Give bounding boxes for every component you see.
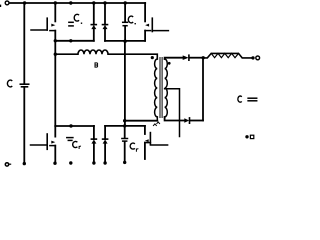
transistor Q2 gate bar <box>151 18 153 31</box>
transistor Q2 source wire <box>144 31 146 41</box>
rectifier D6 wire <box>165 117 185 121</box>
transistor Q4 source bar <box>145 142 151 144</box>
diode D2 cathode bar <box>103 24 108 26</box>
output terminal plus <box>256 56 260 60</box>
diode D1 clamp upper lead <box>93 3 95 25</box>
transistor Q3 source bar <box>50 145 55 147</box>
transistor Q4 drain wire <box>144 126 146 134</box>
label C input <box>7 80 12 87</box>
rectifier D6 output wire <box>190 120 203 122</box>
diode D2 clamp upper lead <box>104 3 106 25</box>
transistor Q3 arrow <box>51 141 55 144</box>
transistor Q3 drain <box>54 126 56 137</box>
bottom node dot x94 <box>92 161 95 164</box>
mark caret a <box>153 124 156 126</box>
node dot B lower x125 <box>123 124 126 127</box>
filter inductor Lf zigzag <box>211 53 238 57</box>
output capacitor Co plates <box>248 97 257 99</box>
diode D3 clamp upper lead <box>93 126 95 139</box>
transformer secondary winding <box>165 59 168 117</box>
input capacitor C lower lead <box>23 88 25 163</box>
transformer core <box>160 58 162 118</box>
capacitor Cr plates <box>67 137 73 139</box>
node dot top rail x125 <box>124 1 127 4</box>
label C1 <box>74 14 79 21</box>
capacitor C2 lower lead <box>124 26 126 41</box>
node dot LB tap <box>54 53 57 56</box>
label C2 <box>128 16 133 23</box>
label C output <box>238 96 242 102</box>
transistor Q1 gate lead <box>31 29 47 31</box>
label LB <box>95 63 98 67</box>
node dot output <box>202 56 205 59</box>
capacitor C2 upper lead <box>124 3 126 22</box>
diode D3 cathode bar <box>91 138 96 140</box>
node dot top rail x55 <box>54 1 57 4</box>
label Cr right <box>130 143 135 149</box>
diode D1 lower lead <box>93 29 95 41</box>
bottom node dot x55 <box>53 162 56 165</box>
transistor Q2 source bar <box>145 30 150 32</box>
capacitor Cr2 upper lead <box>124 126 126 138</box>
inductor LB lead and coil <box>55 50 157 59</box>
node B lower wire <box>105 125 145 127</box>
transistor Q3 gate lead <box>31 144 48 146</box>
rectifier D6 cathode bar <box>189 118 191 123</box>
transistor Q1 source bar <box>50 30 55 32</box>
node dot top rail x94 <box>92 1 95 4</box>
diode D1 triangle <box>91 25 96 29</box>
node B vertical wire <box>124 41 126 126</box>
rectifier D5 triangle <box>183 55 189 60</box>
diode D2 triangle <box>103 25 108 29</box>
diode D3 lower lead <box>93 144 95 163</box>
transistor Q4 arrow <box>145 139 149 142</box>
transistor Q2 gate lead <box>152 30 168 32</box>
node dot output minus <box>245 135 248 138</box>
bottom node dot x125 <box>123 161 126 164</box>
bottom node dot x24 <box>23 162 26 165</box>
transistor Q3 gate bar <box>46 134 48 149</box>
node dot top rail x71 <box>69 1 72 4</box>
transistor Q2 arrow <box>145 24 149 27</box>
diode D4 cathode bar <box>103 138 108 140</box>
node dot top rail x105 <box>103 1 106 4</box>
node dot output plus <box>251 56 254 59</box>
bottom-left terminal <box>5 163 8 166</box>
center tap wire <box>165 89 180 137</box>
transistor Q4 source wire <box>144 143 146 159</box>
capacitor Cr2 plates <box>122 138 128 140</box>
node dot A x55 <box>54 39 57 42</box>
node dot top rail x24 <box>23 1 26 4</box>
primary return wire <box>125 120 158 122</box>
transformer secondary polarity dot <box>168 62 171 65</box>
capacitor C2 plates <box>123 21 128 23</box>
rectifier D6 triangle <box>184 118 189 123</box>
transistor Q1 drain <box>54 3 56 21</box>
top rail wire <box>10 2 146 4</box>
label Cr left <box>73 141 78 147</box>
mark caret b <box>157 122 160 124</box>
transformer primary bottom stub <box>156 117 158 121</box>
node B upper wire <box>105 40 145 42</box>
transistor Q2 drain <box>144 3 146 21</box>
filter inductor Lf <box>203 53 251 58</box>
diode D3 triangle <box>91 140 96 144</box>
transformer primary polarity dot <box>151 56 154 59</box>
rectifier junction vertical wire <box>202 58 204 121</box>
diode D4 clamp upper lead <box>104 126 106 139</box>
transistor Q3 source wire <box>54 146 56 163</box>
transistor Q4 gate bar <box>149 133 151 144</box>
rectifier D5 cathode bar <box>188 55 190 60</box>
bottom node dot x71 bare <box>69 161 72 164</box>
node dot B x125 <box>123 40 126 43</box>
transistor Q4 gate lead <box>150 144 167 146</box>
diode D2 lower lead <box>104 29 106 41</box>
node A vertical wire <box>54 31 56 126</box>
output terminal minus <box>250 135 253 138</box>
diode D1 cathode bar <box>91 24 96 26</box>
input terminal + <box>5 1 9 5</box>
capacitor C1 plates <box>69 21 73 23</box>
transistor Q1 arrow <box>51 24 55 27</box>
stray mark left edge top <box>0 5 1 7</box>
node A upper wire <box>55 40 94 42</box>
bottom node dot x105 <box>103 161 106 164</box>
diode D4 lower lead <box>104 144 106 163</box>
diode D4 triangle <box>103 140 108 144</box>
node A lower wire <box>55 125 94 127</box>
capacitor Cr2 lower lead <box>124 142 126 162</box>
node dot primary return <box>123 119 126 122</box>
node dot A lower x71 <box>69 124 72 127</box>
input capacitor C upper lead <box>23 3 25 83</box>
transistor Q1 gate bar <box>46 18 48 30</box>
rectifier D5 wire <box>165 58 183 59</box>
transformer primary winding <box>155 59 158 117</box>
input capacitor C plates <box>20 83 28 85</box>
rectifier D5 output wire <box>190 57 204 59</box>
node dot A x71 <box>69 39 72 42</box>
